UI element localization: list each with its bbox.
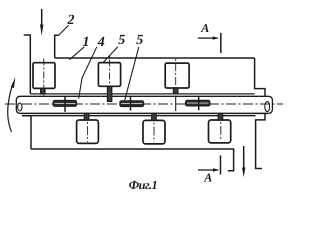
inlet flow arrow (top left)	[40, 9, 43, 36]
box D1 centerline	[87, 122, 89, 142]
outlet flow arrow (bottom right)	[242, 146, 245, 177]
svg-text:A: A	[200, 21, 209, 35]
box U1 centerline	[43, 59, 45, 97]
valve spool V3	[186, 96, 210, 110]
box D2 centerline	[153, 123, 155, 143]
right top step	[255, 58, 265, 96]
box D3 centerline	[220, 122, 222, 141]
box U2 centerline	[109, 56, 111, 87]
solenoid box U3 (top)	[165, 63, 189, 88]
solenoid box D1 (bottom)	[77, 120, 99, 143]
pipe right end ellipse	[265, 102, 270, 112]
solenoid box D2 (bottom)	[143, 120, 165, 143]
leader for label 1	[70, 47, 85, 60]
leader for label 5a	[103, 47, 117, 63]
left inlet bracket	[24, 35, 31, 94]
box D2 stem	[152, 113, 157, 120]
leader for label 5b	[125, 47, 139, 100]
box U3 stem	[173, 88, 178, 94]
pipe right cap	[268, 96, 272, 113]
solenoid box U2 (top)	[98, 63, 120, 87]
svg-text:4: 4	[97, 35, 105, 50]
svg-text:5: 5	[136, 33, 143, 48]
inlet step under label 2	[55, 35, 59, 58]
box D3 stem	[218, 113, 223, 120]
box U3 centerline	[175, 59, 177, 94]
svg-text:1: 1	[83, 35, 90, 50]
box U2 stem	[107, 86, 111, 101]
pipe top line	[21, 95, 269, 97]
right lower step and L bracket	[256, 113, 265, 168]
leader for label 2	[59, 25, 69, 35]
box D1 stem	[84, 113, 89, 120]
svg-text:Фиг.1: Фиг.1	[129, 178, 158, 192]
lower-left hook	[22, 116, 31, 149]
pipe axis centerline	[5, 103, 283, 105]
pipe bottom line	[21, 112, 269, 114]
wire top plate line	[55, 57, 255, 59]
svg-text:2: 2	[67, 13, 75, 28]
leader for label 4	[79, 47, 97, 99]
svg-text:5: 5	[118, 33, 125, 48]
section mark A top	[198, 33, 221, 53]
valve spool V1	[53, 96, 76, 112]
solenoid box U1 (top)	[33, 63, 55, 89]
housing top line	[30, 93, 254, 95]
svg-text:A: A	[203, 171, 212, 185]
valve spool V2	[120, 97, 144, 111]
bottom plate line with J hook	[31, 149, 234, 171]
pipe left end ellipse	[18, 103, 22, 111]
solenoid box D3 (bottom)	[209, 120, 231, 143]
pipe left cap	[16, 96, 20, 113]
box U1 stem	[41, 88, 45, 94]
housing bottom line	[31, 115, 256, 117]
rotation arrow (far left)	[8, 77, 16, 132]
section mark A bottom	[198, 155, 221, 174]
